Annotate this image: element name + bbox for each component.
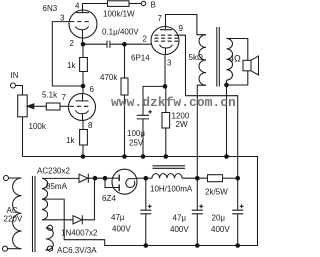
svg-text:6P14: 6P14 <box>131 54 150 63</box>
svg-text:2W: 2W <box>176 120 188 129</box>
svg-text:www.dzkfw.com.cn: www.dzkfw.com.cn <box>111 95 236 110</box>
svg-text:5.1k: 5.1k <box>42 91 58 100</box>
svg-text:9: 9 <box>179 24 184 33</box>
svg-text:400V: 400V <box>211 225 230 234</box>
svg-text:2: 2 <box>70 39 75 48</box>
svg-text:10H/100mA: 10H/100mA <box>150 185 193 194</box>
svg-text:47μ: 47μ <box>111 213 125 222</box>
svg-text:400V: 400V <box>112 225 131 234</box>
svg-text:5kΩ: 5kΩ <box>189 53 203 62</box>
svg-text:3: 3 <box>60 14 65 23</box>
svg-text:1k: 1k <box>66 136 75 145</box>
svg-text:100k: 100k <box>29 122 47 131</box>
svg-text:B: B <box>151 1 156 10</box>
svg-text:3: 3 <box>167 59 172 68</box>
svg-text:20μ: 20μ <box>212 214 226 223</box>
svg-text:100k/1W: 100k/1W <box>103 10 135 19</box>
svg-text:AC6.3V/3A: AC6.3V/3A <box>57 246 97 255</box>
svg-text:2k/5W: 2k/5W <box>205 188 228 197</box>
svg-text:25V: 25V <box>129 139 144 148</box>
svg-text:47μ: 47μ <box>173 214 187 223</box>
svg-text:IN: IN <box>11 71 19 80</box>
svg-text:6Z4: 6Z4 <box>102 194 116 203</box>
svg-text:4Ω: 4Ω <box>229 54 241 64</box>
svg-text:400V: 400V <box>170 225 189 234</box>
svg-text:6N3: 6N3 <box>43 4 58 13</box>
svg-text:AC230x2: AC230x2 <box>37 167 70 176</box>
svg-text:7: 7 <box>158 14 163 23</box>
svg-text:6: 6 <box>90 85 95 94</box>
svg-text:8: 8 <box>88 121 93 130</box>
svg-text:220V: 220V <box>4 215 23 224</box>
svg-text:4: 4 <box>75 2 80 11</box>
svg-text:85mA: 85mA <box>46 182 68 191</box>
svg-text:2: 2 <box>143 35 148 44</box>
svg-text:0.1μ/400V: 0.1μ/400V <box>102 28 139 37</box>
svg-text:470k: 470k <box>100 73 118 82</box>
svg-text:1k: 1k <box>67 61 76 70</box>
svg-text:1N4007x2: 1N4007x2 <box>61 229 98 238</box>
svg-text:7: 7 <box>62 93 67 102</box>
svg-text:100μ: 100μ <box>127 129 145 138</box>
